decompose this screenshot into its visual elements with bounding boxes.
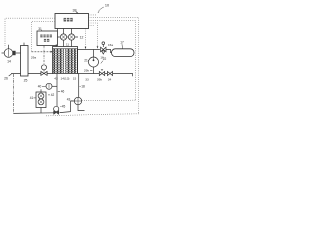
bottom water line bbox=[14, 101, 75, 113]
text in controller box bbox=[64, 18, 73, 22]
label 29a bbox=[31, 55, 36, 59]
svg-text:18: 18 bbox=[81, 85, 85, 89]
svg-text:12: 12 bbox=[80, 35, 84, 39]
fan downcomers bbox=[56, 40, 71, 46]
spray water valve 23 (circle + bowtie) bbox=[43, 46, 45, 65]
circulation pump 43 bbox=[74, 97, 81, 104]
drain valve 45 (circle + bowtie) bbox=[54, 106, 59, 111]
fan risers to controller bbox=[64, 29, 72, 34]
signal line to sprayer 29a bbox=[32, 21, 56, 52]
label 38 bbox=[73, 9, 77, 13]
text row2 in box bbox=[44, 39, 49, 42]
fan 12 right circle bbox=[68, 34, 74, 40]
controller box 38 bbox=[55, 14, 89, 29]
label 12 bbox=[80, 35, 84, 39]
svg-text:39b: 39b bbox=[97, 78, 102, 82]
labels 43 14(13) 15 bbox=[54, 76, 76, 80]
leader 38 bbox=[76, 12, 78, 14]
label 15a bbox=[108, 43, 113, 47]
label 43 bbox=[67, 97, 71, 101]
leader 26 bbox=[9, 74, 12, 76]
signal row short a bbox=[89, 14, 97, 16]
label 21 bbox=[84, 58, 88, 62]
receiver tank 17 bbox=[112, 49, 135, 57]
signal row inner loop bbox=[89, 20, 136, 100]
svg-text:15: 15 bbox=[73, 76, 77, 80]
signal to valve 32 bbox=[89, 23, 98, 46]
pipe into receiver bbox=[106, 50, 112, 53]
spray supply dashed 29a bbox=[32, 51, 51, 53]
valve 39b on main line bbox=[99, 72, 104, 76]
svg-text:14(13): 14(13) bbox=[61, 76, 70, 80]
svg-text:21: 21 bbox=[84, 58, 88, 62]
svg-text:29a: 29a bbox=[31, 55, 36, 59]
label 14 bbox=[7, 60, 11, 64]
svg-text:46: 46 bbox=[61, 90, 65, 94]
water pump 14 bbox=[2, 52, 5, 54]
evaporative condenser 13 shell bbox=[53, 47, 78, 74]
subcooler 41 with fans bbox=[36, 92, 46, 108]
signal bottom outer bbox=[45, 114, 139, 116]
down pipe 18 from condenser bbox=[78, 74, 80, 98]
label 22 bbox=[103, 57, 107, 61]
arrow into condenser bbox=[51, 51, 53, 53]
connector controller to steam box bbox=[57, 29, 59, 32]
drain line 26 bbox=[13, 74, 15, 113]
fan 12 left circle bbox=[60, 34, 66, 40]
arrowhead sensor 2 bbox=[85, 47, 87, 49]
label 41 bbox=[30, 96, 34, 100]
labels 33 39b 34 bbox=[85, 78, 111, 82]
label 40 bbox=[38, 85, 42, 89]
svg-text:45: 45 bbox=[62, 105, 66, 109]
main water line bbox=[11, 74, 133, 77]
water column tank 25 bbox=[21, 46, 29, 77]
label 25 bbox=[24, 79, 28, 83]
svg-text:34: 34 bbox=[108, 78, 112, 82]
label 17 bbox=[120, 41, 124, 45]
label 29b bbox=[84, 69, 89, 73]
signal line left to pump 14 bbox=[5, 18, 55, 47]
signal row short b bbox=[89, 25, 94, 27]
condenser coil hatching bbox=[54, 49, 78, 73]
label 42 bbox=[51, 93, 55, 97]
svg-text:17: 17 bbox=[120, 41, 124, 45]
svg-text:40: 40 bbox=[38, 85, 42, 89]
svg-text:14: 14 bbox=[7, 60, 11, 64]
label 31 bbox=[38, 27, 42, 31]
svg-text:33: 33 bbox=[85, 78, 89, 82]
arrow 10 bbox=[99, 7, 104, 11]
svg-text:41: 41 bbox=[30, 96, 34, 100]
svg-text:15a: 15a bbox=[108, 43, 113, 47]
separator 21 bbox=[93, 50, 95, 58]
valve 34 on main line bbox=[107, 72, 112, 76]
svg-text:43: 43 bbox=[54, 76, 58, 80]
condenser top header bbox=[53, 47, 78, 49]
background bbox=[0, 0, 140, 120]
label 46 bbox=[61, 90, 65, 94]
vapour pipe to tank bbox=[78, 49, 100, 51]
svg-text:43: 43 bbox=[67, 97, 71, 101]
three way valve 32 bbox=[101, 47, 106, 52]
svg-text:26: 26 bbox=[4, 77, 8, 81]
control signal lines (dotted) bbox=[5, 15, 139, 116]
label 18 bbox=[81, 85, 85, 89]
label 45 bbox=[62, 105, 66, 109]
svg-text:29b: 29b bbox=[84, 69, 89, 73]
svg-text:42: 42 bbox=[51, 93, 55, 97]
text row1 in box bbox=[40, 35, 52, 38]
arrowhead sensor 1 bbox=[97, 46, 99, 48]
label 26 bbox=[4, 77, 8, 81]
svg-text:10: 10 bbox=[105, 4, 109, 8]
signal row outer loop bbox=[89, 17, 139, 114]
signal drop from box bottom bbox=[85, 29, 87, 47]
svg-text:11: 11 bbox=[66, 43, 69, 47]
steam system box (chinese text) bbox=[37, 31, 58, 46]
label 11 bbox=[66, 43, 69, 47]
label 10 bbox=[105, 4, 109, 8]
svg-text:25: 25 bbox=[24, 79, 28, 83]
riser 46 bbox=[56, 74, 58, 107]
signal bottom inner to pump 43 bbox=[82, 99, 135, 102]
svg-text:22: 22 bbox=[103, 57, 107, 61]
pump 40 bbox=[46, 83, 52, 89]
fan link wires bbox=[58, 36, 79, 38]
label 16 bbox=[100, 55, 104, 59]
